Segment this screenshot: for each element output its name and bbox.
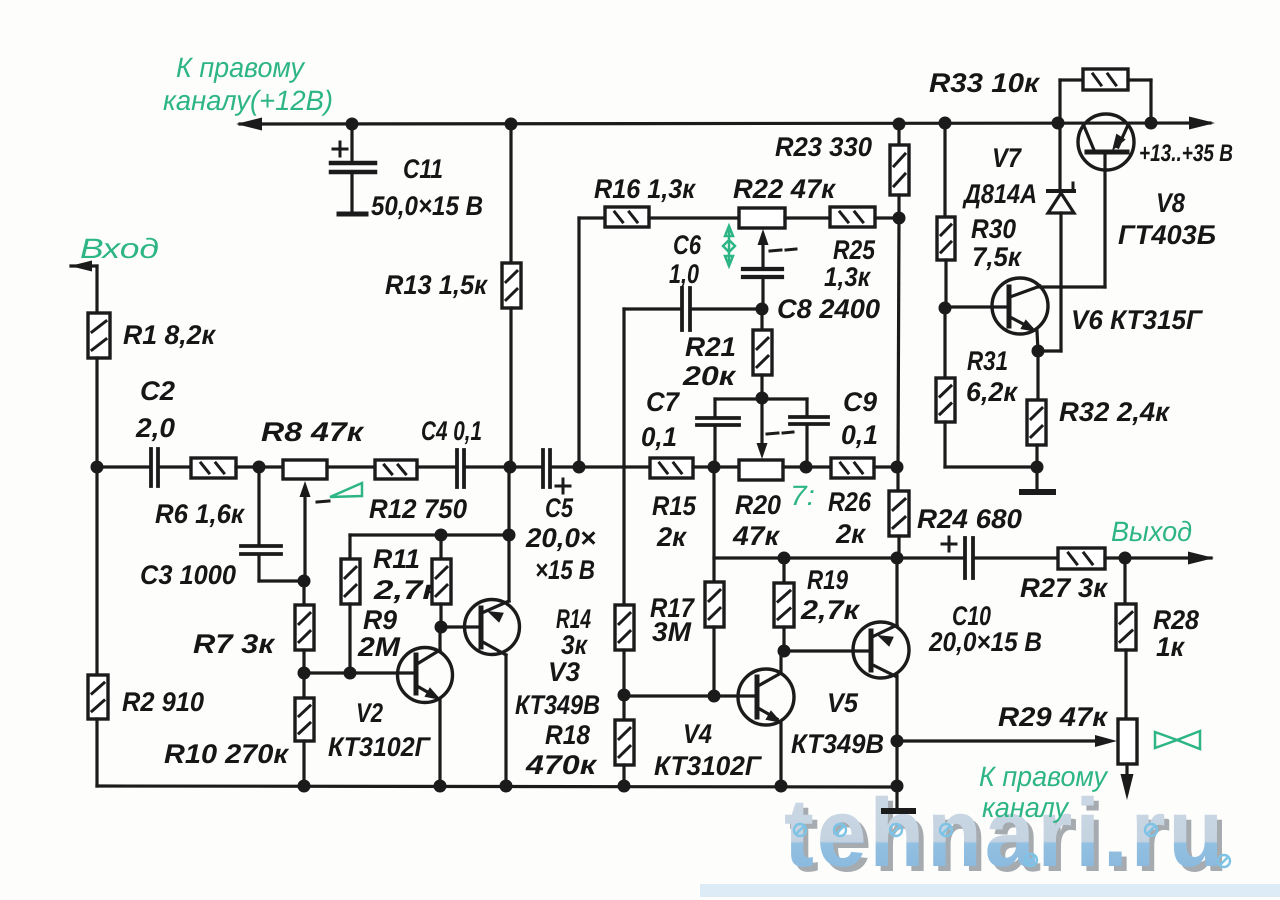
svg-text:×15 В: ×15 В [535,555,595,585]
svg-text:0,1: 0,1 [841,420,878,450]
svg-text:20,0×: 20,0× [525,523,596,553]
svg-text:2,0: 2,0 [135,413,175,443]
svg-text:R21: R21 [685,332,736,362]
svg-text:R25: R25 [833,235,876,265]
svg-text:20,0×15 В: 20,0×15 В [928,627,1042,657]
svg-text:R28: R28 [1153,605,1199,635]
svg-text:R1 8,2к: R1 8,2к [123,320,216,350]
svg-text:V7: V7 [992,143,1023,173]
svg-text:R22 47к: R22 47к [733,174,836,204]
svg-text:C9: C9 [843,387,877,417]
svg-text:R24 680: R24 680 [917,504,1022,534]
svg-text:C2: C2 [140,376,175,406]
svg-text:R8 47к: R8 47к [261,417,365,447]
svg-text:R11: R11 [373,544,420,574]
svg-text:К правому: К правому [176,52,306,83]
svg-text:C8 2400: C8 2400 [777,294,880,324]
svg-text:V4: V4 [683,719,712,749]
svg-text:6,2к: 6,2к [966,377,1018,407]
svg-text:R15: R15 [652,491,697,521]
svg-text:2к: 2к [835,519,866,549]
svg-text:R23 330: R23 330 [775,132,872,162]
svg-text:C5: C5 [545,493,574,523]
svg-text:V2: V2 [356,698,383,728]
svg-text:1,0: 1,0 [669,259,699,289]
svg-text:Выход: Выход [1111,516,1192,547]
svg-text:1к: 1к [1156,632,1185,662]
svg-text:КТ3102Г: КТ3102Г [654,751,762,781]
svg-text:R10 270к: R10 270к [164,739,289,769]
svg-text:R31: R31 [967,346,1008,376]
svg-text:R16 1,3к: R16 1,3к [594,174,696,204]
svg-text:7:: 7: [790,480,815,511]
svg-text:470к: 470к [525,750,598,780]
svg-text:Д814А: Д814А [962,179,1037,209]
svg-text:C6: C6 [673,230,702,260]
svg-text:каналу: каналу [982,792,1070,823]
svg-text:R13 1,5к: R13 1,5к [385,270,488,300]
svg-text:0,1: 0,1 [641,422,677,452]
svg-text:3к: 3к [561,630,588,660]
svg-text:R12 750: R12 750 [369,494,467,524]
svg-text:V8: V8 [1156,188,1185,218]
svg-text:+13..+35 В: +13..+35 В [1139,140,1233,167]
svg-text:V3: V3 [548,657,580,687]
svg-text:R19: R19 [807,565,848,595]
svg-text:R7 3к: R7 3к [193,629,276,659]
svg-text:ГТ403Б: ГТ403Б [1118,220,1216,250]
svg-text:R30: R30 [971,214,1016,244]
svg-text:3М: 3М [652,617,692,647]
svg-text:каналу(+12В): каналу(+12В) [163,85,333,116]
svg-text:КТ349В: КТ349В [515,690,600,720]
svg-text:КТ3102Г: КТ3102Г [328,732,431,762]
svg-text:К правому: К правому [979,761,1109,792]
svg-text:V5: V5 [827,688,859,718]
svg-text:R20: R20 [735,490,781,520]
svg-text:КТ349В: КТ349В [791,729,884,759]
svg-text:2М: 2М [357,632,401,662]
svg-text:R6 1,6к: R6 1,6к [155,499,245,529]
svg-text:R2 910: R2 910 [122,687,204,717]
svg-text:C4 0,1: C4 0,1 [421,416,482,446]
svg-text:50,0×15 В: 50,0×15 В [371,191,483,221]
svg-text:1,3к: 1,3к [824,262,871,292]
svg-text:R9: R9 [363,605,397,635]
svg-text:7,5к: 7,5к [972,242,1022,272]
svg-text:R18: R18 [545,720,590,750]
svg-text:2к: 2к [656,522,687,552]
svg-text:Вход: Вход [80,233,159,264]
svg-text:C11: C11 [403,154,443,184]
svg-text:V6 КТ315Г: V6 КТ315Г [1071,305,1203,335]
svg-text:R29 47к: R29 47к [998,702,1108,732]
svg-text:R33 10к: R33 10к [929,68,1040,98]
svg-text:C3 1000: C3 1000 [140,560,236,590]
svg-text:R27 3к: R27 3к [1020,573,1108,603]
svg-text:2,7к: 2,7к [800,595,861,625]
svg-text:R26: R26 [828,487,872,517]
svg-text:R32 2,4к: R32 2,4к [1059,397,1170,427]
svg-text:47к: 47к [732,521,780,551]
svg-text:20к: 20к [682,361,737,391]
svg-text:C7: C7 [646,387,681,417]
